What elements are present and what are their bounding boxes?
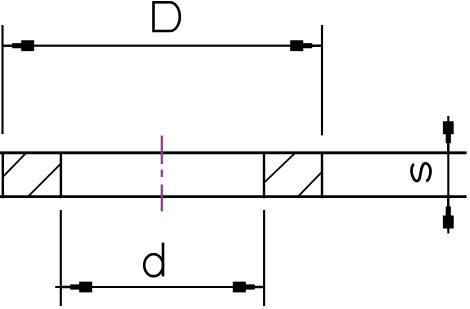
hole left edge	[60, 152, 62, 199]
d dimension: left extension line	[60, 210, 62, 306]
hole right edge	[263, 152, 265, 199]
d dimension line	[55, 286, 264, 288]
s dimension line (vertical, at right)	[447, 116, 449, 234]
D arrow left	[3, 40, 34, 51]
hatch line right region 1	[264, 152, 296, 183]
s arrow top (pointing down to top edge)	[443, 121, 454, 152]
washer section outline: bottom edge	[0, 195, 467, 198]
washer section outline: left edge	[2, 152, 4, 199]
D arrow right	[290, 40, 321, 51]
D dimension: left extension line	[1, 25, 3, 134]
label d	[144, 243, 163, 277]
d arrow left	[61, 282, 92, 293]
d arrow right	[233, 282, 264, 293]
hatch line left region 2	[28, 164, 60, 197]
label s (rotated 90 ccw)	[411, 163, 430, 181]
s arrow bottom (pointing up to bottom edge)	[443, 198, 454, 229]
magenta center line (dash-dot axis)	[161, 136, 163, 212]
washer right outer edge	[321, 152, 323, 199]
hatch line left region 1	[3, 153, 27, 178]
D dimension: right extension line	[321, 25, 323, 135]
washer section outline: top edge	[0, 151, 467, 154]
hatch line right region 2	[297, 172, 322, 198]
label D	[154, 2, 180, 31]
d dimension: right extension line	[263, 210, 265, 306]
D dimension line	[3, 45, 321, 47]
